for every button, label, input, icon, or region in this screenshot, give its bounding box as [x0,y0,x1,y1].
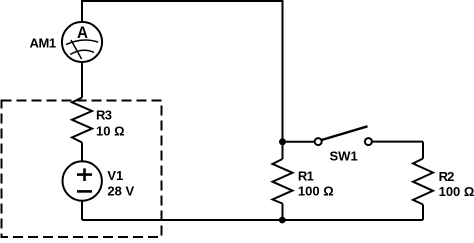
svg-text:100 Ω: 100 Ω [439,184,474,199]
wire R2 to bottom rail [422,205,424,221]
switch SW1 [283,126,424,145]
resistor R3 [72,98,92,143]
svg-text:R1: R1 [298,169,314,184]
svg-text:A: A [77,23,88,42]
svg-text:V1: V1 [107,168,123,183]
wire top horizontal [82,0,283,2]
svg-text:28 V: 28 V [107,184,134,199]
svg-text:10 Ω: 10 Ω [96,124,125,139]
svg-text:SW1: SW1 [330,148,358,163]
svg-text:R3: R3 [96,108,112,123]
wire R1 to bottom rail [282,204,284,221]
wire V1 to bottom rail [81,201,83,220]
junction dot switch node [279,138,286,145]
svg-text:100 Ω: 100 Ω [298,184,334,199]
ammeter AM1 [62,22,102,62]
voltage source V1 [62,161,101,200]
junction dot bottom [279,217,286,224]
wire bottom rail [82,219,423,221]
wire R3 to V1 [81,143,83,162]
dashed enclosure box [2,101,162,238]
wire ammeter to R3 [81,62,83,97]
resistor R1 [273,159,293,204]
wire right vertical [282,0,284,142]
wire SW1 to R2 [422,142,424,159]
svg-text:AM1: AM1 [30,36,56,51]
wire ammeter top lead [81,0,83,22]
resistor R2 [413,159,433,205]
svg-text:R2: R2 [439,169,455,184]
wire node to R1 [282,142,284,159]
